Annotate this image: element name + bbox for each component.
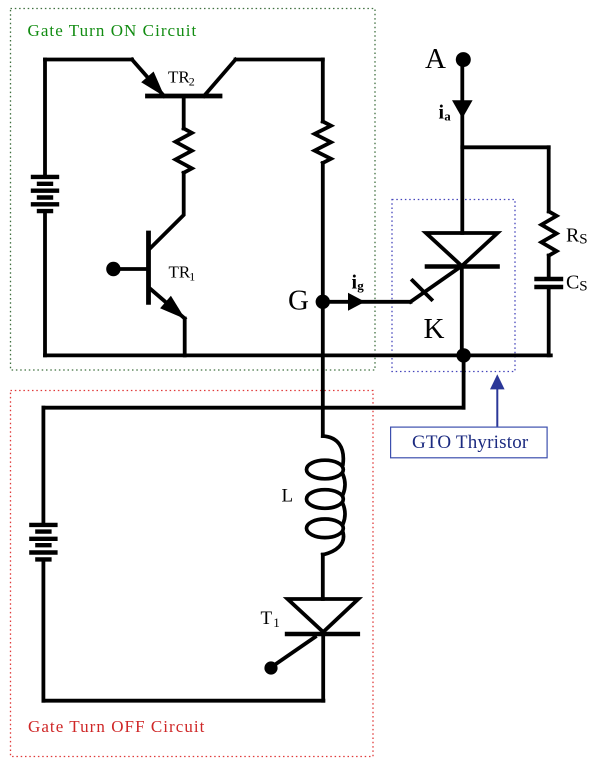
wire gate horizontal from G	[323, 300, 411, 304]
thyristor T1 triangle	[288, 599, 359, 632]
transistor TR1 emitter arrowhead	[160, 296, 185, 319]
wire Cs down	[547, 289, 551, 355]
inductor L coil loop 3	[307, 519, 344, 538]
svg-text:R: R	[566, 224, 580, 246]
battery B2 plate short 2	[37, 543, 49, 547]
battery B2 plate long 3	[31, 550, 55, 554]
wire TR2 base drop	[182, 96, 186, 129]
wire Rs to Cs	[547, 256, 551, 278]
gate turn off circuit boundary box	[11, 391, 374, 757]
svg-text:TR: TR	[168, 68, 190, 87]
svg-text:G: G	[288, 285, 309, 317]
inductor L coil connectors	[323, 436, 345, 555]
capacitor Cs bottom plate	[537, 285, 562, 289]
svg-text:1: 1	[189, 269, 195, 283]
battery B1 plate long 1	[33, 175, 57, 179]
wire anode from A	[460, 60, 464, 233]
wire TR1 emitter down	[183, 319, 187, 356]
GTO thyristor label box	[391, 427, 547, 458]
svg-text:L: L	[282, 486, 294, 507]
svg-text:Gate Turn ON Circuit: Gate Turn ON Circuit	[28, 21, 198, 40]
node A terminal dot	[456, 52, 471, 67]
capacitor Cs top plate	[537, 277, 562, 281]
wire off-circuit bottom horizontal	[43, 699, 323, 703]
wire off-circuit left vertical below battery B2	[42, 562, 46, 701]
wire R2 down through node G to inductor	[321, 163, 325, 436]
transistor TR2 base bar	[148, 94, 221, 99]
GTO thyristor callout arrowhead	[490, 374, 505, 389]
transistor TR2 collector lead	[204, 60, 236, 97]
thyristor T1 cathode bar	[287, 632, 358, 637]
svg-text:S: S	[579, 232, 587, 248]
svg-text:TR: TR	[169, 262, 191, 281]
inductor L coil loop 1	[307, 460, 344, 479]
resistor R1 (TR2 base)	[176, 129, 192, 173]
node G terminal dot	[316, 295, 330, 309]
svg-text:g: g	[357, 278, 364, 293]
TR1 base terminal dot	[106, 262, 120, 276]
thyristor T1 gate lead	[273, 637, 315, 666]
wire T1 cathode down	[321, 634, 325, 701]
wire GTO cathode down	[460, 266, 464, 355]
battery B1 plate long 3	[33, 202, 57, 206]
battery B2 plate long 2	[31, 537, 55, 541]
thyristor T1 gate terminal dot	[264, 661, 277, 674]
svg-text:T: T	[261, 608, 273, 629]
resistor R2	[315, 122, 331, 164]
svg-text:2: 2	[189, 75, 195, 89]
svg-text:S: S	[579, 279, 587, 295]
current arrow ia head	[452, 100, 473, 118]
wire snubber vertical to Rs	[547, 147, 551, 211]
wire coil to T1	[321, 555, 325, 600]
wire cathode bottom horizontal	[45, 353, 551, 357]
battery B1 plate short 1	[39, 182, 51, 186]
wire gate diagonal	[411, 266, 463, 302]
GTO cathode bar	[427, 264, 498, 269]
svg-text:K: K	[424, 313, 445, 345]
svg-text:GTO Thyristor: GTO Thyristor	[412, 432, 529, 453]
svg-text:C: C	[566, 271, 579, 293]
GTO thyristor callout arrow stem	[496, 388, 498, 427]
svg-text:a: a	[444, 109, 451, 124]
transistor TR2 emitter lead	[132, 60, 164, 97]
GTO thyristor boundary box (blue dotted)	[392, 200, 515, 372]
battery B1 plate long 2	[33, 188, 57, 192]
wire node K down	[462, 355, 466, 407]
transistor TR1 base bar	[146, 233, 151, 302]
gate tick mark	[413, 281, 432, 300]
wire TR1 base	[113, 267, 147, 271]
node K junction dot	[456, 348, 470, 362]
current arrow ig head	[348, 293, 365, 311]
wire top-right horizontal	[236, 58, 323, 62]
battery B2 plate short 3	[37, 557, 49, 561]
wire resistor R1 to TR1 collector	[151, 173, 184, 248]
battery B1 plate short 3	[39, 209, 51, 213]
resistor Rs	[541, 212, 556, 256]
wire left vertical below battery B1	[43, 213, 47, 355]
wire off-circuit left vertical above battery B2	[42, 408, 46, 523]
inductor L coil loop 2	[307, 490, 344, 509]
wire left vertical above battery B1	[43, 60, 47, 176]
gate turn on circuit boundary box	[11, 9, 376, 371]
svg-text:A: A	[425, 43, 446, 75]
battery B2 plate long 1	[31, 523, 55, 527]
svg-text:Gate Turn OFF Circuit: Gate Turn OFF Circuit	[28, 717, 205, 736]
battery B1 plate short 2	[39, 195, 51, 199]
wire off-circuit horizontal	[43, 406, 463, 410]
svg-text:1: 1	[273, 615, 280, 630]
wire snubber branch horizontal	[462, 145, 548, 149]
wire top-left horizontal	[45, 58, 132, 62]
transistor TR1 emitter lead	[151, 289, 185, 319]
battery B2 plate short 1	[37, 529, 49, 533]
GTO thyristor U1 triangle	[426, 233, 498, 266]
transistor TR2 emitter arrowhead	[141, 72, 164, 97]
wire right branch vertical top	[321, 60, 325, 122]
